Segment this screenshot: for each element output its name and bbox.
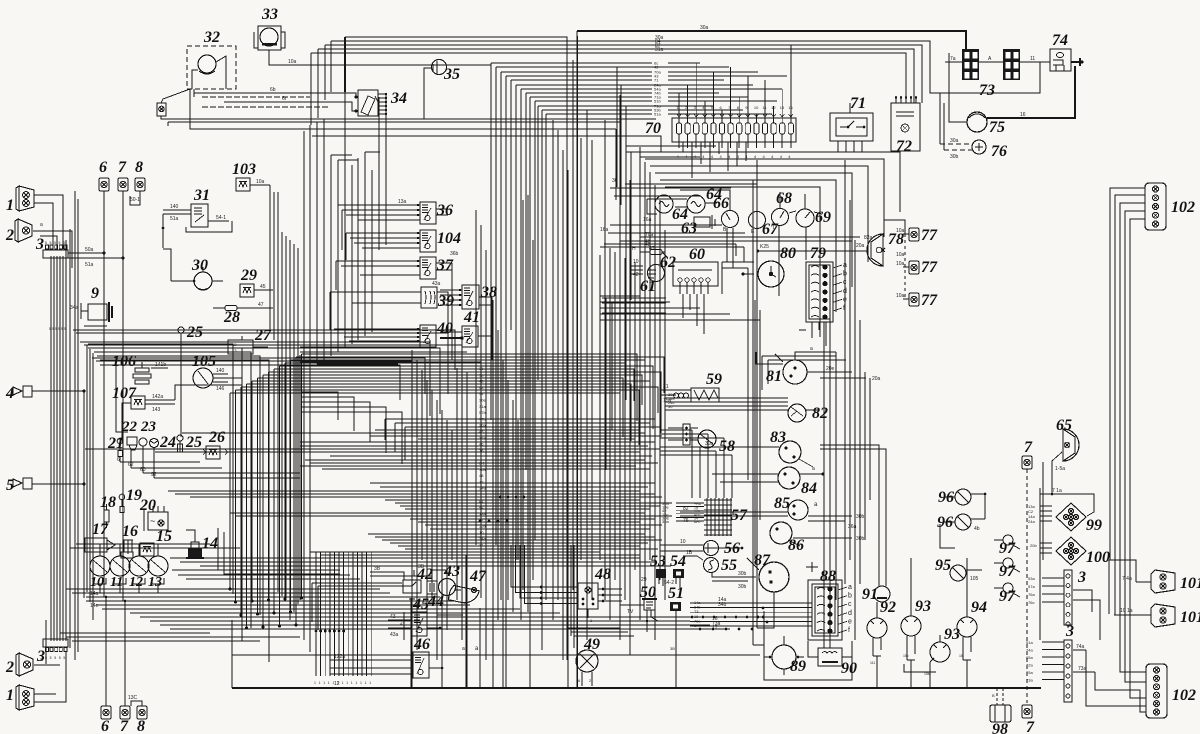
wire conn6b up bbox=[86, 597, 106, 706]
svg-text:43: 43 bbox=[479, 429, 484, 434]
svg-text:6r: 6r bbox=[282, 96, 287, 102]
svg-text:12: 12 bbox=[129, 575, 143, 590]
wire fuse collectors bbox=[626, 145, 716, 147]
wire 46 leads bbox=[330, 659, 413, 661]
svg-text:5: 5 bbox=[58, 327, 60, 331]
svg-text:1: 1 bbox=[365, 681, 367, 685]
svg-text:68: 68 bbox=[776, 190, 792, 207]
svg-text:10: 10 bbox=[90, 575, 104, 590]
svg-text:20b: 20b bbox=[1030, 543, 1037, 548]
switch 58 bbox=[698, 430, 716, 448]
svg-text:34: 34 bbox=[390, 90, 407, 107]
wire 31 frame bbox=[186, 221, 232, 232]
svg-text:3: 3 bbox=[1065, 623, 1074, 640]
svg-text:1-5a: 1-5a bbox=[1055, 466, 1065, 472]
side lamp 101a bbox=[1151, 570, 1175, 593]
svg-text:77: 77 bbox=[921, 259, 938, 276]
svg-text:60: 60 bbox=[689, 246, 705, 263]
svg-text:17: 17 bbox=[92, 521, 109, 538]
wire mesh group A bbox=[73, 330, 455, 370]
wire 32-34 c bbox=[224, 102, 356, 111]
stack 106 bbox=[135, 368, 149, 372]
svg-text:97: 97 bbox=[999, 540, 1016, 557]
relay 71 bbox=[830, 113, 873, 141]
wire 88 left bbox=[690, 602, 812, 604]
svg-text:70: 70 bbox=[645, 120, 661, 137]
svg-text:73a: 73a bbox=[1026, 678, 1033, 683]
wire top nest bundle bbox=[490, 63, 492, 420]
svg-text:51a: 51a bbox=[654, 112, 661, 117]
sensor 21 bbox=[117, 438, 123, 444]
switch 45 bbox=[412, 612, 427, 636]
sensor 97c bbox=[1003, 583, 1013, 593]
sensor 14 bbox=[188, 548, 202, 558]
wire right columns bbox=[844, 160, 846, 584]
wire right mesh h2 bbox=[600, 295, 640, 297]
wire senders bus bbox=[94, 592, 164, 594]
svg-text:94: 94 bbox=[971, 599, 987, 616]
top bus thick 30 bbox=[577, 31, 966, 49]
svg-text:12: 12 bbox=[771, 105, 776, 110]
wire center columns b bbox=[552, 120, 554, 620]
svg-text:T3: T3 bbox=[694, 610, 698, 614]
svg-text:58: 58 bbox=[719, 438, 735, 455]
wire 50 leads bbox=[620, 604, 644, 606]
svg-text:35: 35 bbox=[443, 66, 460, 83]
svg-text:77b: 77b bbox=[479, 416, 486, 421]
wire 28 lead bbox=[240, 307, 273, 309]
wire 35 drop bbox=[424, 68, 432, 119]
wire 38 frame bbox=[452, 263, 492, 360]
motor 32 bbox=[198, 55, 216, 73]
wire 101b lead bbox=[1114, 614, 1151, 616]
wire 30 leads bbox=[171, 280, 194, 282]
wire conn8 drop bbox=[130, 191, 140, 205]
svg-text:57a: 57a bbox=[1028, 584, 1035, 589]
svg-text:74: 74 bbox=[1052, 32, 1068, 49]
wire 73b-74 bbox=[1020, 61, 1050, 63]
svg-text:1: 1 bbox=[328, 681, 330, 685]
sensor 25b bbox=[177, 435, 183, 441]
wire top corner verticals bbox=[344, 37, 346, 92]
svg-text:51a: 51a bbox=[1026, 640, 1033, 645]
sender 10 bbox=[90, 556, 110, 576]
wire 88 leads bbox=[838, 587, 847, 590]
svg-text:5: 5 bbox=[50, 656, 52, 660]
wire main pair bbox=[752, 180, 754, 645]
svg-text:142a: 142a bbox=[152, 394, 163, 400]
svg-text:49: 49 bbox=[583, 636, 600, 653]
wire 37 leads bbox=[336, 260, 420, 262]
svg-text:1: 1 bbox=[332, 681, 334, 685]
connector block 73a bbox=[962, 49, 979, 80]
wire 36 out right bbox=[436, 208, 448, 210]
svg-text:91: 91 bbox=[862, 586, 878, 603]
wire 32 internals bbox=[216, 56, 226, 89]
wire 79 leads bbox=[833, 265, 842, 268]
svg-text:29: 29 bbox=[240, 267, 257, 284]
svg-text:16: 16 bbox=[959, 654, 963, 658]
top bus w5 bbox=[311, 53, 906, 103]
svg-text:70a: 70a bbox=[479, 467, 486, 472]
svg-text:50a: 50a bbox=[85, 247, 94, 253]
svg-text:10a: 10a bbox=[896, 293, 905, 299]
svg-text:1: 1 bbox=[319, 681, 321, 685]
battery 9 bbox=[88, 304, 107, 320]
connector 8 bottom bbox=[137, 706, 147, 719]
svg-text:105: 105 bbox=[970, 576, 979, 582]
wire 87 bar bbox=[806, 566, 818, 568]
svg-text:3B: 3B bbox=[670, 646, 675, 651]
svg-text:30: 30 bbox=[191, 257, 208, 274]
wire 103 lead bbox=[250, 184, 270, 186]
wire vertical bundle left-mesh bbox=[229, 393, 231, 589]
svg-text:28: 28 bbox=[223, 309, 240, 326]
svg-text:5: 5 bbox=[50, 241, 52, 245]
svg-text:62: 62 bbox=[128, 462, 134, 468]
svg-text:50-1: 50-1 bbox=[130, 197, 140, 203]
svg-text:8: 8 bbox=[137, 718, 145, 734]
svg-text:14c: 14c bbox=[90, 603, 99, 609]
svg-text:25: 25 bbox=[185, 434, 202, 451]
svg-text:13a: 13a bbox=[479, 511, 486, 516]
svg-text:9a: 9a bbox=[479, 372, 484, 377]
diamond 99 bbox=[1056, 503, 1086, 531]
wire lowmid fill bbox=[310, 551, 600, 553]
rotor 89 bbox=[772, 645, 796, 669]
svg-text:75a: 75a bbox=[1026, 670, 1033, 675]
lamp 4 bbox=[13, 387, 22, 395]
wire 40 leads bbox=[334, 328, 420, 330]
wire bus drop dots bbox=[315, 630, 318, 633]
svg-text:24a: 24a bbox=[1028, 519, 1035, 524]
svg-text:14a: 14a bbox=[90, 591, 99, 597]
wire 86 lead bbox=[793, 537, 852, 539]
svg-text:140: 140 bbox=[170, 204, 179, 210]
svg-text:4: 4 bbox=[5, 385, 14, 402]
svg-text:3: 3 bbox=[1077, 569, 1086, 586]
sender 13 bbox=[148, 556, 168, 576]
wire 32-34 b bbox=[202, 96, 310, 98]
svg-text:2: 2 bbox=[5, 659, 14, 676]
svg-text:103: 103 bbox=[232, 161, 256, 178]
wire 80 drop bbox=[754, 300, 756, 560]
svg-text:69: 69 bbox=[815, 209, 831, 226]
wire 74 right bar bbox=[1071, 61, 1080, 63]
fuse 62 bbox=[650, 250, 662, 255]
connector 8 top bbox=[135, 178, 145, 191]
wire 65 lead bbox=[1052, 452, 1062, 494]
sensor 35 bbox=[432, 60, 447, 75]
svg-text:77: 77 bbox=[921, 227, 938, 244]
gauge 64a bbox=[655, 195, 673, 213]
svg-text:20a: 20a bbox=[856, 243, 865, 249]
svg-text:51a: 51a bbox=[85, 262, 94, 268]
svg-text:1: 1 bbox=[337, 681, 339, 685]
wire sensors drops bbox=[119, 457, 121, 462]
svg-text:96: 96 bbox=[938, 489, 954, 506]
relay 72 bbox=[891, 103, 920, 151]
gauge 69 bbox=[796, 209, 814, 227]
sensor 24 bbox=[150, 439, 159, 448]
wire 33 drop bbox=[269, 50, 491, 65]
wire 28 left bbox=[213, 307, 225, 309]
wire 57 feed tops bbox=[660, 429, 692, 431]
sensor 25 top bbox=[178, 327, 184, 333]
svg-text:79: 79 bbox=[810, 245, 826, 262]
svg-text:74a: 74a bbox=[1076, 644, 1085, 650]
svg-text:93: 93 bbox=[915, 598, 931, 615]
wire feeder corners bbox=[317, 363, 398, 365]
wire 83 lead bbox=[700, 446, 779, 448]
svg-text:2: 2 bbox=[5, 227, 14, 244]
wire sensor bus d bbox=[154, 477, 300, 479]
svg-text:5: 5 bbox=[59, 241, 61, 245]
wire senders top feed bbox=[70, 547, 240, 549]
svg-text:a: a bbox=[40, 222, 43, 228]
svg-text:95: 95 bbox=[935, 557, 951, 574]
svg-text:102: 102 bbox=[1171, 199, 1195, 216]
svg-text:47: 47 bbox=[258, 302, 264, 308]
svg-text:77: 77 bbox=[479, 479, 484, 484]
svg-text:90: 90 bbox=[841, 660, 857, 677]
wire 101a lead bbox=[1136, 581, 1151, 583]
svg-text:44: 44 bbox=[479, 391, 484, 396]
wire 42 feed bbox=[370, 572, 404, 580]
svg-text:14: 14 bbox=[202, 535, 218, 552]
svg-text:10 1a: 10 1a bbox=[1120, 608, 1133, 614]
switch 42 bbox=[403, 580, 421, 593]
wire horn drop bundle bbox=[74, 191, 76, 660]
connector 6 bottom bbox=[101, 706, 111, 719]
svg-text:39: 39 bbox=[437, 293, 454, 310]
svg-text:101: 101 bbox=[1180, 609, 1200, 626]
svg-text:30e: 30e bbox=[479, 398, 486, 403]
svg-text:6: 6 bbox=[99, 159, 107, 176]
wire 91 feed bbox=[820, 445, 879, 586]
svg-text:5: 5 bbox=[52, 327, 54, 331]
wire pair stubs bbox=[753, 644, 764, 646]
svg-text:5: 5 bbox=[54, 656, 56, 660]
wire right drop pair bbox=[1039, 488, 1041, 640]
wire 107 leads bbox=[145, 399, 175, 401]
svg-text:7a: 7a bbox=[950, 56, 956, 62]
connector 7 bottom bbox=[120, 706, 130, 719]
connector bar 3 r-bot bbox=[1064, 640, 1072, 702]
wire 31 leads bbox=[163, 209, 191, 211]
switch 41 bbox=[462, 326, 478, 347]
wire 57 leads bbox=[676, 502, 704, 504]
svg-text:30a: 30a bbox=[950, 138, 959, 144]
wire 37 out bbox=[436, 262, 452, 264]
svg-text:16: 16 bbox=[694, 615, 698, 619]
horn 65 bbox=[1063, 429, 1079, 461]
svg-text:7 4a: 7 4a bbox=[1122, 576, 1132, 582]
svg-text:100: 100 bbox=[1086, 549, 1110, 566]
amp 61 bbox=[648, 265, 665, 282]
wire 90 drop bbox=[823, 322, 825, 648]
wire 34 pins left bbox=[355, 96, 358, 99]
svg-text:43a: 43a bbox=[432, 281, 441, 287]
svg-text:89: 89 bbox=[790, 658, 806, 675]
horn 78 bbox=[867, 234, 883, 266]
sensor 63 bbox=[694, 217, 710, 227]
wire 76 leads bbox=[940, 143, 972, 145]
wire 29 lead bbox=[254, 289, 273, 291]
wiper relay 59 bbox=[691, 388, 719, 402]
svg-text:73a: 73a bbox=[1078, 666, 1087, 672]
wire low feed a bbox=[170, 557, 640, 559]
svg-text:65a: 65a bbox=[1026, 655, 1033, 660]
wire 64 frame bbox=[647, 199, 657, 214]
wire 3rt leads bbox=[1042, 577, 1064, 579]
svg-text:46: 46 bbox=[413, 636, 430, 653]
svg-text:59: 59 bbox=[706, 371, 722, 388]
wire 41 leads bbox=[440, 331, 462, 333]
svg-text:77: 77 bbox=[921, 292, 938, 309]
svg-text:98: 98 bbox=[992, 721, 1008, 734]
wire horn1 leads bbox=[34, 195, 63, 249]
wire lamp4 bbox=[32, 390, 84, 392]
wire 79 bottom bbox=[811, 322, 813, 338]
valve 56 bbox=[704, 541, 719, 556]
wire mesh staircase w bbox=[88, 344, 233, 594]
connector 29 bbox=[240, 284, 254, 297]
wire fuse long drops bbox=[682, 142, 684, 152]
svg-text:70a: 70a bbox=[645, 232, 654, 238]
svg-text:92: 92 bbox=[880, 599, 896, 616]
svg-text:99: 99 bbox=[1086, 517, 1102, 534]
svg-text:82: 82 bbox=[812, 405, 828, 422]
svg-text:85: 85 bbox=[774, 495, 790, 512]
svg-text:61: 61 bbox=[640, 278, 656, 295]
wire 89-90 frame bbox=[764, 611, 852, 680]
wire left mid bundle bbox=[83, 391, 85, 598]
wire 81 zone bbox=[762, 355, 836, 357]
wire center columns c bbox=[599, 255, 601, 560]
wire switch feeder bundle bbox=[303, 131, 305, 640]
svg-text:30a: 30a bbox=[479, 423, 486, 428]
wire 80 lead bbox=[743, 273, 754, 275]
dist 105 bbox=[193, 368, 213, 388]
svg-text:11: 11 bbox=[110, 575, 123, 590]
top bus w3 bbox=[325, 45, 922, 103]
svg-text:13: 13 bbox=[780, 105, 785, 110]
svg-text:6: 6 bbox=[117, 457, 120, 463]
svg-text:13a: 13a bbox=[398, 199, 407, 205]
diamond 100 bbox=[1056, 537, 1086, 565]
svg-text:76a: 76a bbox=[1028, 592, 1035, 597]
switch 84 bbox=[778, 467, 800, 489]
coil 81 bbox=[783, 360, 807, 384]
sensor 15 bbox=[140, 543, 154, 556]
lamp 91 bbox=[874, 586, 890, 602]
horn 2 bottom bbox=[16, 653, 19, 676]
svg-text:34b: 34b bbox=[694, 606, 700, 610]
gen 20 bbox=[148, 512, 168, 530]
svg-text:5: 5 bbox=[6, 477, 14, 494]
svg-text:1: 1 bbox=[355, 681, 357, 685]
svg-text:47: 47 bbox=[469, 568, 487, 585]
sensor 19 bbox=[119, 494, 125, 500]
svg-text:75: 75 bbox=[989, 119, 1005, 136]
svg-text:41: 41 bbox=[463, 309, 480, 326]
wire low feed b bbox=[218, 528, 330, 570]
svg-text:16a: 16a bbox=[643, 217, 652, 223]
connector 77c bbox=[909, 293, 919, 306]
svg-text:5: 5 bbox=[61, 327, 63, 331]
svg-text:45: 45 bbox=[260, 284, 266, 290]
wire gauge tops bbox=[680, 190, 730, 210]
svg-text:8-1: 8-1 bbox=[479, 461, 486, 466]
svg-text:34b: 34b bbox=[718, 602, 727, 608]
starter 17 bbox=[85, 538, 107, 552]
svg-text:17: 17 bbox=[694, 624, 698, 628]
wire 77 chain bbox=[904, 234, 906, 300]
svg-text:140: 140 bbox=[216, 368, 225, 374]
svg-text:1: 1 bbox=[342, 681, 344, 685]
svg-text:c: c bbox=[848, 601, 852, 608]
wire 61 leads bbox=[630, 265, 643, 267]
svg-text:3B: 3B bbox=[418, 564, 425, 570]
wire mesh staircase nw bbox=[302, 392, 338, 420]
svg-text:31a: 31a bbox=[655, 47, 664, 53]
svg-text:18: 18 bbox=[100, 494, 116, 511]
motor 33 bbox=[258, 26, 281, 50]
svg-text:15: 15 bbox=[156, 528, 172, 545]
svg-text:14: 14 bbox=[788, 105, 793, 110]
side lamp 101b bbox=[1151, 604, 1175, 627]
motor 30 bbox=[194, 272, 212, 290]
svg-text:d: d bbox=[848, 610, 852, 617]
svg-text:71: 71 bbox=[850, 95, 866, 112]
wire 34 pins right bbox=[378, 93, 386, 95]
wire 93b link bbox=[904, 664, 936, 672]
svg-text:38: 38 bbox=[480, 284, 497, 301]
fuse 28 bbox=[225, 306, 237, 311]
svg-text:63: 63 bbox=[681, 220, 697, 237]
svg-text:53: 53 bbox=[650, 553, 666, 570]
top bus w4 bbox=[318, 49, 914, 103]
wire 32 lower2 bbox=[167, 122, 169, 126]
svg-text:16a: 16a bbox=[600, 227, 609, 233]
svg-text:24: 24 bbox=[159, 434, 176, 451]
wire 87-89 link bbox=[762, 592, 774, 628]
svg-text:10a: 10a bbox=[256, 179, 265, 185]
switch 39 bbox=[421, 287, 437, 308]
wire sensor bus a bbox=[120, 461, 200, 463]
svg-text:10a: 10a bbox=[896, 228, 905, 234]
svg-text:1: 1 bbox=[346, 681, 348, 685]
connector 77a bbox=[909, 228, 919, 241]
switch 85 bbox=[788, 500, 808, 520]
wire 43 top bbox=[413, 570, 415, 576]
connector 77b bbox=[909, 261, 919, 274]
matrix 57 bbox=[706, 498, 708, 536]
switch 104 bbox=[420, 230, 436, 252]
wire sensor bus b bbox=[131, 467, 222, 469]
svg-text:1: 1 bbox=[351, 681, 353, 685]
wire 33 bracket bbox=[254, 32, 258, 48]
wire 9 bracket bbox=[84, 325, 107, 327]
wire instr feed2 bbox=[610, 224, 722, 226]
svg-text:76c: 76c bbox=[1028, 600, 1034, 605]
gauge 68 bbox=[772, 209, 789, 226]
wire sensor bus c bbox=[143, 472, 300, 474]
wire mesh group C bbox=[385, 418, 655, 420]
svg-text:9: 9 bbox=[91, 285, 99, 302]
svg-text:83: 83 bbox=[770, 429, 786, 446]
